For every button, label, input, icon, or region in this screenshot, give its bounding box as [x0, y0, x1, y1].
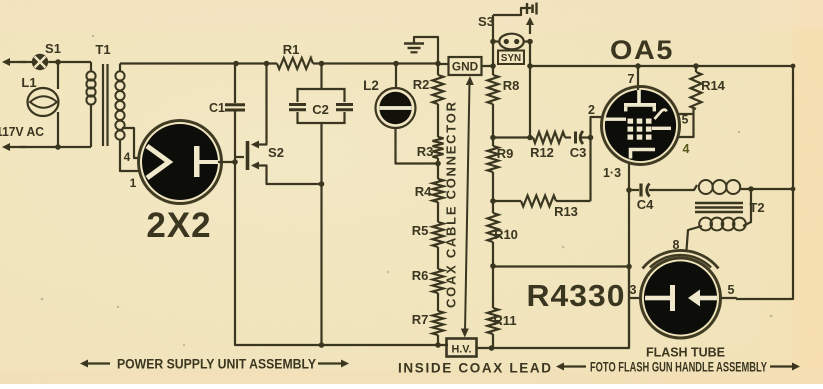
flash tube left electrode	[645, 296, 671, 301]
svg-text:1·3: 1·3	[603, 166, 621, 180]
svg-text:S2: S2	[268, 145, 284, 160]
wire: junction to R12	[493, 136, 533, 138]
lamp L2	[376, 88, 416, 128]
svg-text:R10: R10	[494, 227, 518, 242]
svg-text:4: 4	[683, 142, 690, 156]
node: top right corner	[791, 64, 796, 69]
capacitor C4	[639, 184, 642, 197]
node: syn right junction	[527, 39, 533, 45]
arrow: syn plug to S3	[529, 20, 531, 34]
wire: V2 pin 1-3 column	[628, 164, 630, 348]
wire: R3 to R4	[437, 158, 439, 179]
rectifier tube V1 envelope	[139, 121, 222, 204]
connector extent arrow	[465, 82, 470, 332]
resistor R4	[433, 179, 444, 202]
capacitor C3	[574, 132, 577, 144]
svg-text:2: 2	[588, 103, 595, 117]
wire: top rail R1 to R2 column	[313, 62, 438, 64]
resistor R13	[521, 196, 556, 207]
node: top rail start junction	[527, 63, 533, 69]
wire: syn column down to R12 row	[529, 42, 531, 138]
node: C2 junction on top rail	[319, 61, 325, 67]
wire: R2 to R3	[437, 104, 439, 137]
node: divider tap junction	[626, 264, 632, 270]
capacitor C2 right plates	[336, 103, 353, 106]
wire: C3 to pin2 column	[582, 136, 591, 138]
resistor R8	[488, 75, 499, 104]
node: syn left junction	[490, 39, 496, 45]
transformer T1 primary winding	[86, 71, 95, 80]
wire: R7 to bottom rail	[437, 335, 439, 345]
wire: rail to GND box	[438, 63, 449, 65]
transformer T1 core	[102, 64, 104, 146]
svg-text:L2: L2	[363, 78, 379, 93]
wire: S3 column down	[492, 15, 494, 75]
AC line arrow top	[5, 61, 26, 63]
resistor R5	[433, 222, 444, 247]
switch S2 stub	[235, 156, 244, 158]
wire: T2 primary right	[740, 188, 793, 190]
wire: T2 secondary left to trigger band	[687, 226, 703, 250]
flash tube trigger band	[643, 250, 719, 268]
node: junction above L1	[55, 59, 61, 65]
resistor R14	[695, 66, 697, 72]
svg-text:R12: R12	[530, 145, 554, 160]
caption power supply	[83, 362, 110, 364]
wire: top AC line	[20, 61, 32, 63]
rectifier V1 filament	[147, 146, 169, 178]
wire: C1 lower lead to plate node	[234, 111, 236, 162]
transformer T1 secondary winding	[115, 71, 124, 80]
tube V2 OA5 envelope	[602, 87, 680, 165]
transformer T1 secondary tap to pin 4	[122, 128, 139, 158]
svg-text:R8: R8	[503, 78, 520, 93]
wire: flash tube pin 3 stub	[629, 297, 641, 299]
node: R8-R9-R12 junction	[490, 135, 496, 141]
svg-text:3: 3	[630, 283, 637, 297]
switch S3 contact	[526, 3, 528, 14]
switch S2 bar	[246, 141, 250, 170]
trigger coil T2 secondary	[699, 218, 712, 231]
node: R14 junction	[693, 63, 699, 69]
resistor R1	[277, 58, 313, 69]
node: T2 junction	[748, 186, 754, 192]
svg-text:1: 1	[130, 176, 137, 190]
svg-text:R4330: R4330	[527, 278, 626, 313]
flash tube envelope	[641, 258, 721, 338]
resistor R11	[488, 308, 499, 334]
caption foto flash gun	[559, 365, 586, 367]
svg-text:R6: R6	[412, 268, 429, 283]
svg-text:R11: R11	[493, 313, 516, 328]
node: R7 bottom junction	[435, 342, 441, 348]
node: L2 junction on top rail	[393, 61, 399, 67]
resistor R10	[488, 213, 499, 242]
node: S2 junction on top rail	[264, 61, 270, 67]
svg-text:C2: C2	[312, 102, 329, 117]
svg-text:OA5: OA5	[610, 35, 674, 65]
wire: R13 to pin2 column	[556, 200, 591, 202]
svg-text:POWER SUPPLY UNIT ASSEMBLY: POWER SUPPLY UNIT ASSEMBLY	[117, 357, 316, 372]
paper specks	[41, 35, 773, 346]
svg-text:SYN: SYN	[501, 53, 521, 64]
svg-text:C3: C3	[570, 145, 587, 160]
tube V2 right lead	[652, 127, 671, 130]
node: V1 plate junction	[232, 159, 238, 165]
svg-text:C1: C1	[209, 101, 225, 115]
capacitor C2 box	[298, 89, 345, 102]
capacitor C2 left plates	[289, 103, 306, 106]
tube V2 grid dots	[628, 119, 634, 124]
wire: R12 to C3	[565, 136, 571, 138]
wire: bottom AC line	[20, 146, 91, 148]
svg-text:C4: C4	[637, 197, 654, 212]
node: C3-R13-pin2 junction	[588, 135, 594, 141]
wire: tap row to flash tube	[493, 265, 629, 267]
transformer T1 primary lead top	[90, 62, 92, 72]
wire: V1 plate to C1 node	[218, 161, 235, 163]
wire: pin2 column	[591, 117, 604, 201]
wire: T2 secondary right up	[743, 189, 751, 226]
svg-text:H.V.: H.V.	[451, 344, 471, 356]
SYN label box	[498, 51, 524, 65]
wire: L2 top lead	[395, 64, 397, 89]
wire: C2 bottom lead to bottom rail	[320, 123, 322, 345]
node: GND junction on S3 column	[490, 63, 496, 69]
wire: V2 pins 5-4 tie bar	[677, 114, 694, 137]
svg-text:R3: R3	[417, 144, 434, 159]
node: C1 junction on top rail	[233, 61, 239, 67]
svg-text:R14: R14	[701, 78, 726, 93]
wire: top rail right section	[530, 66, 793, 299]
tube V2 left lead	[604, 118, 626, 121]
tube V2 anode	[637, 90, 641, 104]
wire: GND box to S3 column	[482, 65, 494, 67]
svg-text:117V AC: 117V AC	[0, 125, 44, 139]
resistor R7	[433, 311, 444, 335]
svg-text:2X2: 2X2	[146, 206, 211, 245]
svg-text:R5: R5	[412, 223, 429, 238]
svg-text:R7: R7	[412, 312, 429, 327]
resistor R3	[433, 137, 444, 158]
GND terminal box	[449, 57, 482, 75]
flash tube right electrode	[698, 296, 717, 301]
node: syn column to R12 row	[527, 135, 533, 141]
wire: S1 to T1 primary top	[48, 61, 91, 63]
resistor R9	[488, 146, 499, 172]
svg-text:7: 7	[628, 72, 635, 86]
wire: R4 to R5	[437, 202, 439, 222]
node: L2 junction on divider	[435, 161, 441, 167]
wire: flash tube pin 5	[721, 298, 737, 299]
svg-text:S3: S3	[478, 14, 494, 29]
wire: L2 bottom lead to divider	[396, 129, 439, 164]
svg-text:L1: L1	[21, 75, 36, 90]
wire: L1 bottom to AC bottom	[57, 112, 59, 147]
resistor R12	[533, 132, 565, 143]
switch S3 wire	[493, 8, 531, 15]
svg-text:T2: T2	[749, 200, 764, 215]
wire: bottom rail HV to flash tube	[477, 266, 630, 348]
svg-text:FOTO FLASH GUN HANDLE ASSEMBLY: FOTO FLASH GUN HANDLE ASSEMBLY	[590, 360, 767, 375]
wire: drop to L1	[57, 62, 59, 89]
wire: top rail from T1 to R1	[120, 62, 277, 64]
svg-text:R4: R4	[415, 184, 432, 199]
transformer T1 primary lead bottom	[90, 104, 92, 147]
wire: C1 upper lead	[234, 64, 236, 104]
ground symbol	[404, 42, 424, 45]
switch S2 top contact arrow	[251, 141, 259, 149]
syn connector plug	[499, 34, 523, 50]
AC line arrow bottom	[5, 146, 26, 148]
node: rail end junction at R2 column	[435, 61, 441, 67]
wire: R8 to junction	[492, 104, 494, 146]
svg-text:8: 8	[673, 238, 680, 252]
node: C2 column bottom junction	[319, 342, 325, 348]
node: R11 bottom junction	[489, 345, 495, 351]
node: C4 junction	[626, 187, 632, 193]
svg-text:R13: R13	[554, 204, 578, 219]
HV terminal box	[447, 339, 477, 357]
node: R10-R11 tap junction	[490, 263, 496, 269]
svg-text:FLASH TUBE: FLASH TUBE	[646, 346, 725, 360]
trigger coil T2 core	[695, 202, 743, 204]
node: S2 to C2 junction	[319, 181, 325, 187]
svg-text:COAX CABLE CONNECTOR: COAX CABLE CONNECTOR	[444, 101, 459, 308]
svg-text:R9: R9	[497, 146, 514, 161]
switch S2 bottom contact arrow	[251, 162, 259, 170]
svg-text:4: 4	[124, 150, 131, 164]
capacitor C1	[225, 103, 245, 106]
svg-text:GND: GND	[452, 60, 479, 74]
transformer T1 secondary lead top	[119, 64, 121, 72]
node: pin7 junction	[635, 63, 641, 69]
wire: long drop C1 column to bottom rail	[235, 162, 448, 345]
tube V2 cathode	[631, 150, 656, 159]
node: T2 row on right rail	[791, 187, 796, 192]
resistor R6	[433, 269, 444, 293]
wire: V2 pin 7 lead	[637, 66, 639, 90]
wire: C4 to T2 primary	[652, 185, 697, 190]
wire: junction to R13	[493, 200, 521, 202]
transformer T1 secondary bottom to pin 1	[120, 140, 140, 171]
svg-text:5: 5	[728, 283, 735, 297]
wire: R10 to junction	[492, 242, 494, 308]
resistor R2	[433, 75, 444, 104]
wire: R6 to R7	[437, 293, 439, 311]
node: R9-R10-R13 junction	[490, 198, 496, 204]
tube V2 starter hook	[655, 110, 667, 119]
switch S1	[32, 54, 48, 70]
lamp L1	[28, 88, 59, 116]
wire: R9 to junction	[492, 172, 494, 213]
wire: R5 to R6	[437, 247, 439, 269]
svg-text:S1: S1	[45, 41, 61, 56]
wire: R11 to bottom rail	[492, 334, 494, 348]
svg-text:5: 5	[682, 113, 689, 127]
wire: C2 top lead	[320, 64, 322, 90]
rectifier V1 plate	[194, 146, 200, 177]
node: junction below L1	[55, 144, 61, 150]
svg-text:R1: R1	[283, 42, 300, 57]
svg-text:R2: R2	[413, 77, 430, 92]
svg-text:T1: T1	[95, 42, 110, 57]
trigger coil T2 primary	[699, 180, 713, 194]
